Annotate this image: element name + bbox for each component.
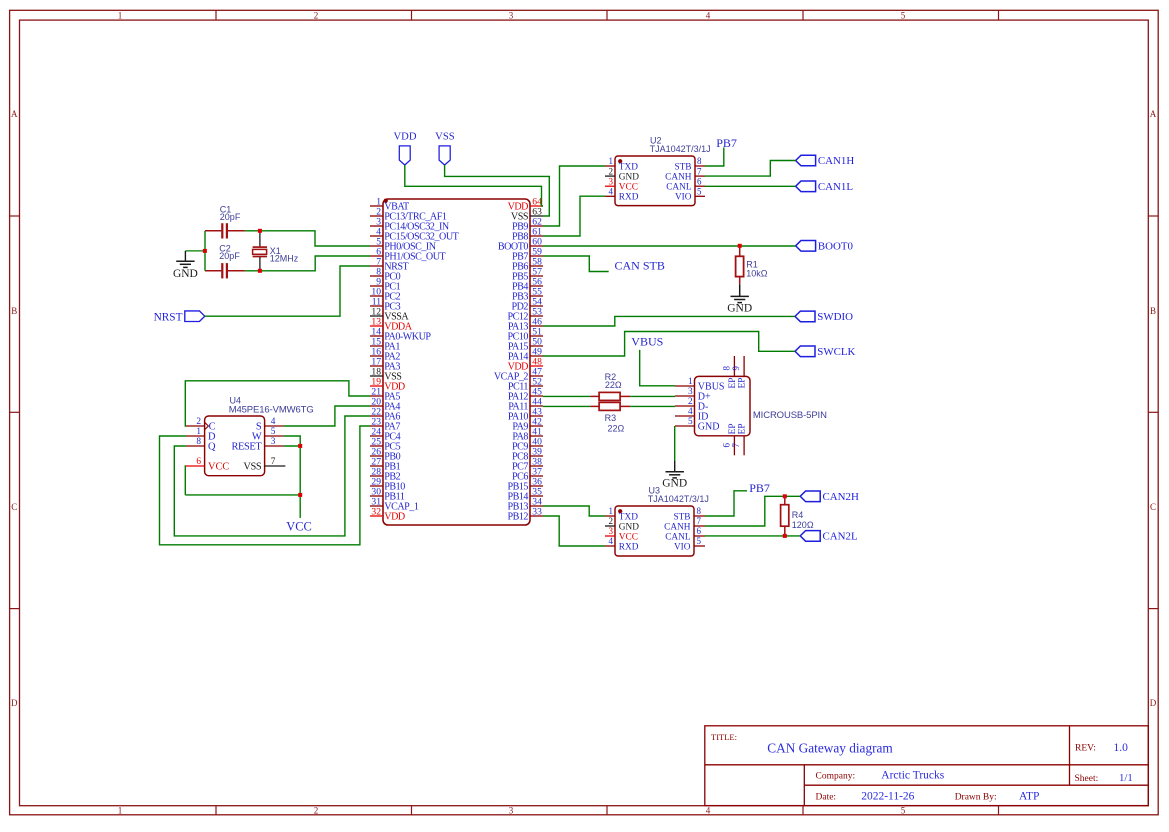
svg-text:Q: Q <box>208 442 216 453</box>
svg-text:R3: R3 <box>605 413 617 423</box>
power flag VDD <box>394 132 417 166</box>
wire U4 Q to MCU PA6 <box>174 416 370 536</box>
svg-text:CAN1H: CAN1H <box>818 155 854 167</box>
svg-text:120Ω: 120Ω <box>792 520 814 530</box>
junction CAN2L / R4 <box>783 534 787 538</box>
wire U4 VCC pin to VCC net <box>185 466 300 495</box>
svg-text:RXD: RXD <box>619 542 639 552</box>
svg-text:GND: GND <box>173 268 198 280</box>
svg-text:VSS: VSS <box>243 462 261 473</box>
svg-text:CAN STB: CAN STB <box>615 258 665 272</box>
MCU U1 STM32 64-pin <box>370 196 543 525</box>
ground below R1 <box>727 277 752 315</box>
svg-text:VCC: VCC <box>286 520 311 534</box>
svg-text:8: 8 <box>697 156 702 166</box>
wire USB GND to ground <box>674 426 676 461</box>
wire MCU BOOT0 to port BOOT0 <box>543 245 796 247</box>
svg-text:CAN Gateway diagram: CAN Gateway diagram <box>767 740 893 755</box>
ground below USB <box>662 461 687 490</box>
wire MCU PA11 to R3 <box>543 405 590 407</box>
port SWDIO <box>795 311 815 322</box>
svg-text:VCC: VCC <box>619 183 638 193</box>
wire MCU PB9 to U2 TXD <box>543 166 605 226</box>
svg-text:4: 4 <box>609 187 614 197</box>
svg-text:Drawn By:: Drawn By: <box>955 793 997 803</box>
port CAN1L <box>796 181 816 192</box>
svg-text:TXD: TXD <box>619 512 638 522</box>
svg-text:1: 1 <box>609 156 614 166</box>
svg-text:2: 2 <box>688 397 693 407</box>
svg-text:GND: GND <box>619 172 639 182</box>
svg-text:3: 3 <box>688 387 693 397</box>
svg-text:Arctic Trucks: Arctic Trucks <box>881 770 944 782</box>
port CAN2H <box>800 491 820 502</box>
svg-text:5: 5 <box>901 10 906 20</box>
svg-text:REV:: REV: <box>1075 744 1096 754</box>
svg-text:7: 7 <box>697 166 702 176</box>
svg-text:12MHz: 12MHz <box>270 254 299 264</box>
svg-text:1: 1 <box>688 377 693 387</box>
svg-text:EP: EP <box>738 378 748 389</box>
CAN transceiver U2 TJA1042T/3/1J <box>605 135 711 205</box>
CAN transceiver U3 TJA1042T/3/1J <box>605 486 709 556</box>
wire U4 S to MCU PA4 <box>284 406 370 426</box>
svg-text:VIO: VIO <box>674 542 691 552</box>
junction crystal bottom node <box>258 269 262 273</box>
wire VCC net vertical to VCC label <box>299 446 301 518</box>
wire R2 to USB D+ <box>630 395 675 397</box>
svg-text:6: 6 <box>722 443 732 448</box>
svg-text:6: 6 <box>697 176 702 186</box>
svg-text:SWCLK: SWCLK <box>817 346 855 358</box>
svg-text:3: 3 <box>609 526 614 536</box>
svg-text:M45PE16-VMW6TG: M45PE16-VMW6TG <box>229 404 314 415</box>
svg-text:1/1: 1/1 <box>1119 772 1133 784</box>
svg-text:1: 1 <box>118 10 123 20</box>
svg-text:A: A <box>11 109 18 119</box>
svg-text:6: 6 <box>196 457 201 467</box>
svg-text:MICROUSB-5PIN: MICROUSB-5PIN <box>753 410 827 421</box>
wire MCU PA14 to SWCLK <box>543 332 795 357</box>
svg-text:CAN2L: CAN2L <box>823 531 858 543</box>
wire U4 C to MCU PA5 <box>185 381 370 426</box>
svg-text:8: 8 <box>697 506 702 516</box>
svg-text:22Ω: 22Ω <box>605 380 622 390</box>
SPI flash U4 M45PE16-VMW6TG <box>186 396 314 476</box>
title block <box>705 726 1149 806</box>
connector MICROUSB-5PIN <box>675 356 827 455</box>
svg-text:RXD: RXD <box>619 193 639 203</box>
svg-text:2: 2 <box>196 417 201 427</box>
svg-text:C: C <box>1150 502 1156 512</box>
wire U3 CANL to CAN2L <box>705 535 800 537</box>
svg-text:4: 4 <box>609 536 614 546</box>
svg-text:4: 4 <box>706 805 711 815</box>
svg-text:3: 3 <box>609 176 614 186</box>
wire crystal top node to MCU PH0 <box>245 231 370 246</box>
svg-text:1: 1 <box>118 805 123 815</box>
svg-text:4: 4 <box>706 10 711 20</box>
svg-text:GND: GND <box>619 522 639 532</box>
svg-text:VCC: VCC <box>619 532 638 542</box>
svg-text:GND: GND <box>727 303 752 315</box>
port BOOT0 <box>796 241 816 252</box>
wire MCU PB7 to CAN STB label <box>543 256 609 272</box>
wire U4 W to VCC net <box>284 436 301 446</box>
port NRST <box>154 311 205 323</box>
svg-text:GND: GND <box>662 477 687 489</box>
svg-text:D: D <box>11 698 18 708</box>
svg-text:7: 7 <box>697 516 702 526</box>
svg-text:8: 8 <box>722 366 732 371</box>
svg-text:VIO: VIO <box>675 193 692 203</box>
wire U4 D to MCU PA7 <box>160 426 371 545</box>
svg-text:STB: STB <box>673 512 690 522</box>
wire MCU PA12 to R2 <box>543 395 590 397</box>
svg-text:NRST: NRST <box>154 311 183 323</box>
svg-text:STB: STB <box>674 162 691 172</box>
svg-text:3: 3 <box>271 437 276 447</box>
svg-text:20pF: 20pF <box>220 212 241 222</box>
wire VSS to MCU pin 63 <box>445 165 550 216</box>
svg-text:33: 33 <box>532 506 542 517</box>
port SWCLK <box>795 346 815 357</box>
svg-text:Date:: Date: <box>816 793 837 803</box>
capacitor C2 20pF <box>205 244 245 279</box>
svg-text:Company:: Company: <box>816 771 856 781</box>
wire R3 to USB D- <box>630 405 675 407</box>
svg-text:TXD: TXD <box>619 162 638 172</box>
svg-text:2: 2 <box>609 166 614 176</box>
crystal X1 12MHz <box>253 231 299 271</box>
svg-text:B: B <box>1150 306 1156 316</box>
svg-text:CANL: CANL <box>665 532 691 542</box>
svg-text:4: 4 <box>688 407 693 417</box>
svg-text:D: D <box>1150 698 1157 708</box>
svg-text:B: B <box>11 306 17 316</box>
svg-text:TITLE:: TITLE: <box>711 732 737 742</box>
svg-text:PB12: PB12 <box>507 512 528 523</box>
svg-text:CAN1L: CAN1L <box>818 181 853 193</box>
wire C1/C2 left vertical <box>204 231 206 271</box>
wire MCU PB13 to U3 TXD <box>543 506 605 516</box>
svg-text:GND: GND <box>698 422 720 433</box>
wire crystal bottom node to MCU PH1 <box>245 256 370 271</box>
svg-text:2: 2 <box>314 10 319 20</box>
wire MCU PB12 to U3 RXD <box>543 516 605 546</box>
svg-text:TJA1042T/3/1J: TJA1042T/3/1J <box>648 494 709 504</box>
resistor R3 22R <box>590 402 630 433</box>
wire VDD to MCU pin 64 <box>405 165 543 206</box>
wire U2 STB to PB7 label <box>705 148 724 167</box>
wire MCU PB8 to U2 RXD <box>543 196 605 236</box>
svg-text:2: 2 <box>609 516 614 526</box>
wire NRST port to MCU pin 7 <box>205 266 370 316</box>
svg-text:VCC: VCC <box>208 462 229 473</box>
svg-text:6: 6 <box>697 526 702 536</box>
svg-text:R4: R4 <box>792 510 804 520</box>
svg-text:CANL: CANL <box>666 183 692 193</box>
svg-text:Sheet:: Sheet: <box>1075 774 1099 784</box>
svg-text:5: 5 <box>271 427 276 437</box>
svg-text:20pF: 20pF <box>219 251 240 261</box>
svg-text:3: 3 <box>509 805 514 815</box>
svg-text:2: 2 <box>314 805 319 815</box>
svg-text:TJA1042T/3/1J: TJA1042T/3/1J <box>650 144 711 154</box>
junction U4 VCC pin net <box>298 493 302 497</box>
svg-text:CAN2H: CAN2H <box>823 491 859 503</box>
svg-text:1: 1 <box>609 506 614 516</box>
svg-text:10kΩ: 10kΩ <box>746 268 768 278</box>
svg-text:A: A <box>1150 109 1157 119</box>
svg-text:BOOT0: BOOT0 <box>818 241 854 253</box>
wire MCU PA13 to SWDIO <box>543 316 795 326</box>
svg-text:VBUS: VBUS <box>631 335 663 349</box>
svg-text:VDD: VDD <box>384 512 405 523</box>
svg-text:9: 9 <box>731 366 741 371</box>
svg-text:EP: EP <box>738 423 748 434</box>
wire U2 CANH to CAN1H <box>705 161 796 177</box>
wire U3 STB to PB7 label <box>705 491 747 516</box>
svg-text:5: 5 <box>688 417 693 427</box>
svg-text:22Ω: 22Ω <box>608 423 625 433</box>
svg-text:1.0: 1.0 <box>1114 742 1129 754</box>
svg-text:RESET: RESET <box>232 442 263 453</box>
svg-text:5: 5 <box>697 187 702 197</box>
svg-text:7: 7 <box>271 457 276 467</box>
svg-text:VDD: VDD <box>394 132 417 143</box>
resistor R2 22R <box>590 372 630 401</box>
wire VBUS label to USB pin 1 <box>640 350 675 386</box>
wire U3 CANH to CAN2H <box>705 496 800 526</box>
port CAN2L <box>800 531 820 542</box>
junction crystal top node <box>258 229 262 233</box>
capacitor C1 20pF <box>205 205 245 239</box>
svg-text:5: 5 <box>697 536 702 546</box>
junction BOOT0 / R1 <box>738 244 742 248</box>
svg-text:7: 7 <box>731 443 741 448</box>
junction U4 RESET/W VCC net <box>298 444 302 448</box>
svg-text:4: 4 <box>271 417 276 427</box>
svg-text:PB7: PB7 <box>716 136 737 150</box>
svg-text:VSS: VSS <box>435 132 455 143</box>
svg-text:EP: EP <box>728 423 738 434</box>
junction crystal gnd node <box>203 249 207 253</box>
svg-text:2022-11-26: 2022-11-26 <box>861 791 914 803</box>
svg-text:CANH: CANH <box>664 522 691 532</box>
svg-text:SWDIO: SWDIO <box>817 311 853 323</box>
svg-text:5: 5 <box>901 805 906 815</box>
svg-text:CANH: CANH <box>665 172 692 182</box>
svg-text:EP: EP <box>728 378 738 389</box>
svg-text:ATP: ATP <box>1019 791 1039 803</box>
wire U2 CANL to CAN1L <box>705 185 796 187</box>
svg-text:32: 32 <box>371 506 381 517</box>
power flag VSS <box>435 132 455 166</box>
svg-text:8: 8 <box>196 437 201 447</box>
svg-text:1: 1 <box>196 427 201 437</box>
resistor R1 10k <box>736 246 768 278</box>
svg-text:C: C <box>11 502 17 512</box>
port CAN1H <box>796 155 816 166</box>
wire U4 RESET to VCC net <box>284 445 301 447</box>
junction CAN2H / R4 <box>783 494 787 498</box>
ground at crystal <box>173 251 205 280</box>
svg-text:3: 3 <box>509 10 514 20</box>
svg-text:PB7: PB7 <box>749 481 770 495</box>
resistor R4 120R <box>781 496 814 536</box>
